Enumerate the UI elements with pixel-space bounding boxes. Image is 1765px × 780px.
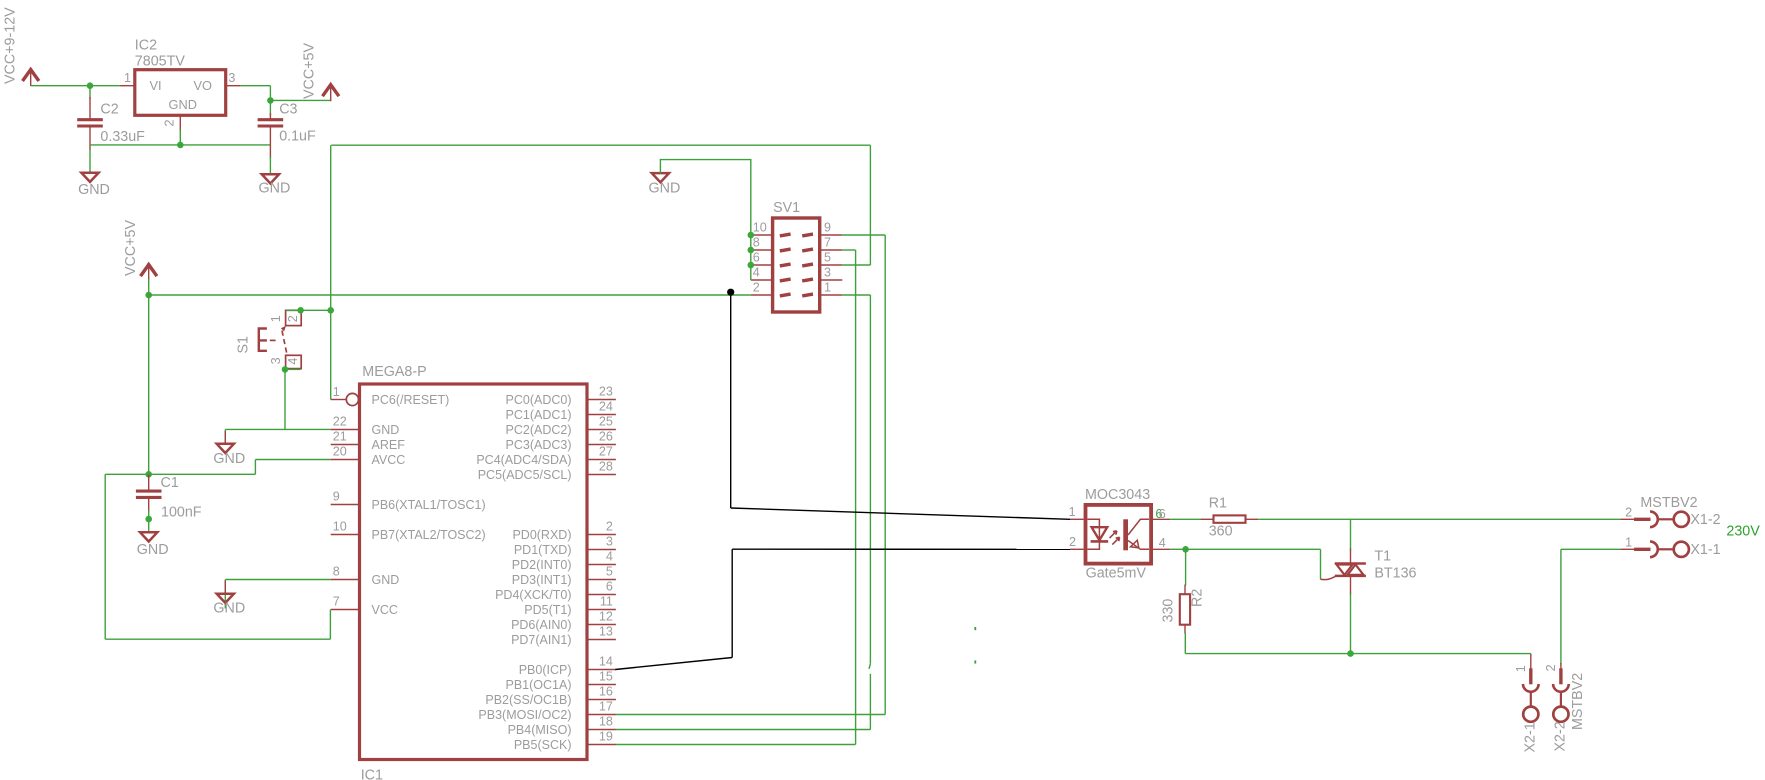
svg-text:X2-2: X2-2 — [1553, 721, 1569, 751]
ground stub red near AREF — [224, 431, 226, 444]
resistor R1 lead right — [1246, 518, 1259, 520]
wire RESET down to SV1 pin5 — [869, 145, 871, 265]
SV1 pin 7 stub — [820, 249, 843, 251]
svg-text:PC1(ADC1): PC1(ADC1) — [506, 408, 572, 422]
svg-text:7: 7 — [824, 236, 831, 250]
triac T1 MT2 lead — [1350, 549, 1352, 564]
svg-text:27: 27 — [599, 445, 613, 459]
svg-text:VCC: VCC — [372, 603, 398, 617]
svg-text:8: 8 — [753, 236, 760, 250]
svg-text:AVCC: AVCC — [372, 453, 406, 467]
IC2 pin 1 stub — [120, 85, 135, 87]
wire C3 top stub — [269, 100, 271, 115]
wire C3 junction to VCC+5V arrow — [270, 99, 330, 101]
svg-text:12: 12 — [599, 610, 613, 624]
junction node below C1 — [145, 516, 152, 523]
switch S1 actuator dash — [270, 339, 276, 341]
wire GND to SV1 riser — [660, 160, 750, 280]
junction node rail left — [145, 292, 152, 299]
ground symbol GND below C2 — [81, 173, 98, 182]
wire R2 to X2-1 bottom net — [1185, 653, 1531, 655]
svg-text:6: 6 — [606, 580, 613, 594]
switch S1 lever arrow — [281, 326, 286, 332]
MOC LED center lead — [1098, 527, 1100, 541]
wire RESET net vertical — [330, 145, 332, 399]
svg-text:5: 5 — [606, 565, 613, 579]
MOC gate arrowhead — [1131, 540, 1139, 548]
triac T1 MT1 lead — [1350, 576, 1352, 595]
svg-text:3: 3 — [269, 357, 283, 364]
capacitor C2 pin top — [89, 97, 91, 119]
wire VCC rail vertical to C1 — [148, 295, 150, 474]
IC1 pin 5 stub — [587, 579, 616, 581]
wire MOC pin6 to R1 — [1170, 518, 1201, 520]
svg-text:PB7(XTAL2/TOSC2): PB7(XTAL2/TOSC2) — [372, 528, 486, 542]
junction node C1 top — [145, 471, 152, 478]
IC1 pin 1 stub — [331, 399, 347, 401]
svg-text:GND: GND — [372, 573, 400, 587]
switch S1 actuator bracket — [259, 329, 267, 351]
svg-text:1: 1 — [1625, 535, 1632, 549]
SV1 pin 10 stub — [751, 234, 773, 236]
capacitor C3 — [258, 118, 284, 121]
junction node black net on VCC rail — [727, 289, 734, 296]
wire VCC input to IC2 pin 1 — [31, 85, 120, 87]
IC1 pin 9 stub — [331, 504, 360, 506]
triac T1 left triangle — [1337, 565, 1353, 575]
svg-text:PB0(ICP): PB0(ICP) — [519, 663, 572, 677]
wire SV1 pin9 net — [842, 234, 885, 236]
svg-text:MSTBV2: MSTBV2 — [1640, 495, 1697, 511]
IC1 pin 27 stub — [587, 459, 616, 461]
wire left loop up to VCC pin7 — [329, 610, 331, 640]
svg-text:PB1(OC1A): PB1(OC1A) — [506, 678, 572, 692]
svg-text:14: 14 — [599, 655, 613, 669]
ground symbol GND near AREF — [217, 444, 234, 453]
IC1 pin 8 stub — [331, 579, 360, 581]
ground symbol GND near pin8 — [217, 594, 234, 603]
triac T1 gate lead — [1321, 576, 1337, 580]
svg-text:13: 13 — [599, 625, 613, 639]
svg-text:VCC+9-12V: VCC+9-12V — [3, 7, 19, 84]
svg-text:GND: GND — [213, 451, 245, 467]
svg-text:PB4(MISO): PB4(MISO) — [508, 723, 572, 737]
IC1 pin 26 stub — [587, 444, 616, 446]
wire S1 top net — [286, 309, 331, 311]
svg-text:PD4(XCK/T0): PD4(XCK/T0) — [495, 588, 571, 602]
junction node SV1 pin8 — [748, 247, 755, 254]
svg-text:R1: R1 — [1209, 496, 1227, 512]
svg-text:PD2(INT0): PD2(INT0) — [512, 558, 572, 572]
junction node MOC pin4 — [1182, 546, 1189, 553]
svg-text:Gate5mV: Gate5mV — [1086, 565, 1147, 581]
svg-text:10: 10 — [753, 221, 767, 235]
svg-text:PC6(/RESET): PC6(/RESET) — [372, 393, 450, 407]
svg-text:230V: 230V — [1726, 523, 1760, 539]
wire black PB0 vertical — [731, 549, 733, 657]
svg-text:PD5(T1): PD5(T1) — [524, 603, 571, 617]
svg-text:2: 2 — [286, 315, 300, 322]
MOC LED cathode bar — [1091, 540, 1109, 543]
resistor R2 lead top — [1184, 585, 1186, 595]
wire SV1 pin1 vertical upper — [869, 295, 871, 664]
svg-text:BT136: BT136 — [1374, 565, 1416, 581]
wire black VCC to MOC pin1 vertical — [730, 292, 732, 508]
SV1 pin 1 stub — [820, 294, 843, 296]
wire T1 gate vertical — [1320, 549, 1322, 579]
svg-text:MOC3043: MOC3043 — [1085, 487, 1150, 503]
switch S1 lever dashed — [282, 331, 287, 355]
wire R1 to X1-2 — [1258, 518, 1620, 520]
wire IC1 pin8 GND net — [225, 579, 330, 581]
MOC LED triangle — [1092, 527, 1108, 540]
svg-text:360: 360 — [1209, 524, 1233, 540]
wire RESET net horizontal top — [331, 144, 870, 146]
svg-text:3: 3 — [228, 71, 235, 85]
ground symbol GND below C3 — [262, 174, 279, 183]
MOC pin6 inner lead — [1128, 519, 1149, 535]
svg-text:PB5(SCK): PB5(SCK) — [514, 738, 572, 752]
svg-text:2: 2 — [753, 281, 760, 295]
junction node SV1 pin10 — [748, 232, 755, 239]
SV1 pin 4 stub — [751, 279, 773, 281]
svg-text:PC4(ADC4/SDA): PC4(ADC4/SDA) — [476, 453, 571, 467]
SV1 contact bars row 8/7 — [780, 249, 813, 251]
svg-text:24: 24 — [599, 400, 613, 414]
svg-text:2: 2 — [1625, 505, 1632, 519]
wire left loop vertical — [104, 474, 106, 639]
IC1 pin 7 stub — [331, 609, 360, 611]
SV1 pin 3 stub — [820, 279, 843, 281]
svg-text:PD6(AIN0): PD6(AIN0) — [511, 618, 571, 632]
svg-text:330: 330 — [1161, 599, 1177, 623]
IC2 pin 2 stub — [179, 115, 181, 131]
junction node S1 branch — [327, 307, 334, 314]
svg-text:17: 17 — [599, 700, 613, 714]
microcontroller IC1 MEGA8-P box — [360, 384, 588, 760]
capacitor C1 pin bottom — [148, 498, 150, 512]
IC1 pin 4 stub — [587, 564, 616, 566]
ground stub red near pin8 — [224, 581, 226, 594]
svg-text:4: 4 — [753, 266, 760, 280]
capacitor C3 pin bottom — [269, 127, 271, 159]
wire VCC arrow stem to rail — [148, 279, 150, 295]
svg-text:5: 5 — [824, 251, 831, 265]
svg-text:1: 1 — [1069, 505, 1076, 519]
svg-text:4: 4 — [286, 358, 300, 365]
wire T1 MT1 down — [1350, 594, 1352, 654]
IC1 pin 14 stub — [587, 669, 616, 671]
wire SCK net pin19 — [616, 744, 856, 746]
switch S1 contact box top — [286, 310, 302, 325]
svg-text:PC0(ADC0): PC0(ADC0) — [506, 393, 572, 407]
junction node S1 pin3 — [282, 366, 289, 373]
IC1 pin 21 stub — [331, 444, 360, 446]
svg-text:16: 16 — [599, 685, 613, 699]
wire X2-1 pin lead — [1530, 654, 1532, 670]
MOC LED cathode lead — [1088, 541, 1100, 549]
wire C1 to GND — [148, 510, 150, 533]
capacitor C3 pin top — [269, 113, 271, 119]
svg-text:GND: GND — [213, 600, 245, 616]
wire MOC pin4 to R2 — [1170, 548, 1185, 550]
MOC light arrow upper — [1110, 531, 1117, 538]
wire left loop bottom — [105, 638, 330, 640]
wire R2 top — [1185, 549, 1187, 585]
SV1 contact bars row 6/5 — [780, 264, 813, 266]
supply symbol VCC+5V arrow (top) — [323, 85, 339, 97]
SV1 pin 9 stub — [820, 234, 843, 236]
svg-text:1: 1 — [269, 315, 283, 322]
svg-text:22: 22 — [333, 415, 347, 429]
resistor R2 lead bottom — [1184, 625, 1186, 634]
svg-text:GND: GND — [259, 181, 291, 197]
IC1 pin 20 stub — [331, 459, 360, 461]
svg-text:25: 25 — [599, 415, 613, 429]
triac T1 bottom rail — [1335, 575, 1366, 578]
supply symbol VCC+9-12V arrow — [23, 70, 39, 82]
svg-text:PC2(ADC2): PC2(ADC2) — [506, 423, 572, 437]
supply symbol VCC+5V arrow (rail) — [141, 265, 157, 277]
svg-text:7: 7 — [333, 595, 340, 609]
IC1 pin 23 stub — [587, 399, 616, 401]
svg-text:20: 20 — [333, 445, 347, 459]
connector X1-1 contact — [1620, 548, 1634, 550]
svg-text:PB6(XTAL1/TOSC1): PB6(XTAL1/TOSC1) — [372, 498, 486, 512]
resistor R1 lead left — [1201, 518, 1214, 520]
wire GND stub near AREF — [224, 429, 226, 444]
wire jog nub — [869, 664, 870, 669]
wire SV1 pin1 vertical lower — [869, 674, 871, 730]
connector X2-2 contact — [1559, 668, 1562, 684]
ground symbol GND above SV1 — [652, 173, 669, 182]
svg-text:VCC+5V: VCC+5V — [302, 43, 318, 99]
wire GND net C2-C3 — [90, 144, 270, 146]
junction node at C3 top — [267, 97, 274, 104]
wire black PB0 from pin14 — [615, 658, 732, 670]
svg-text:SV1: SV1 — [773, 200, 800, 216]
svg-text:MSTBV2: MSTBV2 — [1570, 673, 1586, 730]
junction node at C2 top — [87, 82, 94, 89]
wire AVCC net horizontal — [255, 459, 330, 461]
IC1 pin 6 stub — [587, 594, 616, 596]
wire IC2 pin2 to GND net — [179, 130, 181, 145]
connector X2-2 pin lead — [1560, 663, 1562, 670]
resistor R1 — [1214, 515, 1246, 522]
junction node S1 pin2 — [297, 307, 304, 314]
IC1 pin 19 stub — [587, 744, 616, 746]
wire SV1 pin1 net — [842, 294, 870, 296]
stray net speck lower — [974, 660, 976, 663]
wire C3 to GND — [269, 156, 271, 175]
svg-text:11: 11 — [600, 595, 613, 609]
capacitor C1 pin top — [148, 474, 150, 490]
svg-text:GND: GND — [169, 97, 197, 112]
SV1 pin 8 stub — [751, 249, 773, 251]
wire corner down to C3 junction — [269, 86, 271, 101]
IC1 pin 28 stub — [587, 474, 616, 476]
svg-text:18: 18 — [599, 715, 613, 729]
wire S1 to GND net — [284, 369, 286, 429]
wire SV1 pin7 vertical — [855, 250, 857, 745]
IC1 pin 17 stub — [587, 714, 616, 716]
svg-text:S1: S1 — [236, 336, 252, 354]
svg-text:T1: T1 — [1374, 549, 1391, 565]
wire C2 to GND — [89, 149, 91, 173]
wire SV1 pin5 net — [842, 264, 870, 266]
IC1 pin 24 stub — [587, 414, 616, 416]
MOC phototriac bar — [1123, 519, 1128, 550]
svg-text:15: 15 — [599, 670, 613, 684]
svg-text:1: 1 — [124, 71, 131, 85]
svg-text:4: 4 — [1159, 536, 1166, 550]
svg-text:8: 8 — [333, 565, 340, 579]
svg-text:3: 3 — [824, 266, 831, 280]
IC1 pin 16 stub — [587, 699, 616, 701]
wire gate net horizontal — [1186, 548, 1321, 550]
wire GND overshoot below pin8 — [224, 580, 226, 609]
ground symbol GND below C1 — [140, 532, 157, 541]
svg-text:9: 9 — [824, 221, 831, 235]
svg-text:1: 1 — [333, 385, 340, 399]
svg-text:1: 1 — [824, 281, 831, 295]
wire SV1 pin7 net — [842, 249, 855, 251]
SV1 pin 2 stub — [751, 294, 773, 296]
capacitor C1 — [136, 490, 162, 493]
switch S1 contact box bottom — [286, 355, 302, 368]
svg-text:PB3(MOSI/OC2): PB3(MOSI/OC2) — [478, 708, 571, 722]
wire S1 bottom net — [285, 368, 301, 370]
svg-text:6: 6 — [753, 251, 760, 265]
IC1 pin 12 stub — [587, 624, 616, 626]
wire IC2 pin3 to C3 — [241, 85, 271, 87]
svg-text:6: 6 — [1159, 507, 1166, 521]
svg-text:X2-1: X2-1 — [1523, 722, 1539, 752]
resistor R2 — [1180, 594, 1190, 625]
wire VCC+5V rail — [149, 294, 751, 296]
SV1 pin 6 stub — [751, 264, 773, 266]
svg-text:R2: R2 — [1190, 589, 1206, 607]
triac T1 top rail — [1335, 562, 1366, 565]
svg-text:PD0(RXD): PD0(RXD) — [512, 528, 571, 542]
wire MOSI net pin17 — [616, 714, 886, 716]
MOC pin4 inner lead — [1128, 541, 1149, 550]
wire AVCC jog horizontal to C1 — [105, 473, 255, 475]
connector X2-1 contact — [1529, 668, 1532, 684]
IC1 pin 13 stub — [587, 639, 616, 641]
wire black slant to MOC pin1 — [731, 508, 1070, 519]
capacitor C2 pin bottom — [89, 127, 91, 151]
svg-text:PB2(SS/OC1B): PB2(SS/OC1B) — [485, 693, 571, 707]
wire SV1 pin9 vertical — [884, 235, 886, 715]
svg-text:X1-2: X1-2 — [1690, 512, 1720, 528]
svg-text:7805TV: 7805TV — [135, 53, 186, 69]
IC2 pin 3 stub — [226, 85, 241, 87]
svg-text:VO: VO — [194, 78, 213, 93]
MOC pin 2 stub — [1070, 548, 1084, 550]
svg-text:2: 2 — [1069, 535, 1076, 549]
IC1 pin 22 stub — [331, 429, 360, 431]
wire X1-1 net down to X2-2 — [1560, 549, 1562, 664]
wire IC1 pin22 GND net — [225, 428, 330, 430]
SV1 contact bars row 4/3 — [780, 279, 813, 281]
wire black PB0 to MOC pin2 — [732, 548, 1070, 550]
SV1 contact bars row 2/1 — [780, 294, 813, 296]
svg-text:X1-1: X1-1 — [1690, 542, 1720, 558]
wire MISO net pin18 — [616, 729, 871, 731]
svg-text:C2: C2 — [100, 102, 118, 118]
MOC pin 4 stub — [1153, 548, 1170, 550]
stray net speck upper — [974, 627, 976, 630]
IC1 pin 10 stub — [331, 534, 360, 536]
svg-text:PD7(AIN1): PD7(AIN1) — [511, 633, 571, 647]
wire C2 top stub — [89, 86, 91, 99]
MOC pin 6 stub — [1153, 518, 1170, 520]
svg-text:PC3(ADC3): PC3(ADC3) — [506, 438, 572, 452]
IC1 pin 3 stub — [587, 549, 616, 551]
svg-text:PD3(INT1): PD3(INT1) — [512, 573, 572, 587]
svg-text:2: 2 — [163, 120, 177, 127]
IC1 pin 2 stub — [587, 534, 616, 536]
svg-text:10: 10 — [333, 520, 347, 534]
junction node IC2 pin2 / GND net — [177, 142, 184, 149]
svg-text:19: 19 — [599, 730, 613, 744]
IC1 pin 18 stub — [587, 729, 616, 731]
optocoupler U2 MOC3043 box — [1086, 505, 1152, 564]
triac T1 right triangle — [1348, 565, 1364, 575]
wire T1 MT2 from R1 net — [1350, 519, 1352, 549]
MOC pin 1 stub — [1070, 518, 1084, 520]
SV1 pin 5 stub — [820, 264, 843, 266]
wire X1-1 to X2-2 horizontal — [1561, 548, 1620, 550]
junction node SV1 pin6 — [748, 262, 755, 269]
MOC LED anode lead — [1088, 519, 1100, 527]
svg-text:1: 1 — [1514, 665, 1528, 672]
svg-text:C1: C1 — [161, 475, 179, 491]
MOC light arrow lower — [1112, 537, 1119, 544]
svg-text:IC1: IC1 — [361, 768, 383, 780]
svg-text:VI: VI — [150, 78, 162, 93]
svg-text:0.1uF: 0.1uF — [279, 129, 316, 145]
svg-text:VCC+5V: VCC+5V — [123, 220, 139, 276]
svg-text:9: 9 — [333, 490, 340, 504]
svg-text:C3: C3 — [279, 102, 297, 118]
svg-text:2: 2 — [606, 520, 613, 534]
junction node T1 MT1 / bottom net — [1347, 650, 1354, 657]
IC1 pin 25 stub — [587, 429, 616, 431]
svg-text:26: 26 — [599, 430, 613, 444]
svg-text:21: 21 — [333, 430, 347, 444]
svg-text:AREF: AREF — [372, 438, 406, 452]
connector SV1 box — [773, 218, 820, 312]
svg-text:PC5(ADC5/SCL): PC5(ADC5/SCL) — [478, 468, 572, 482]
svg-text:2: 2 — [1544, 664, 1558, 671]
svg-text:3: 3 — [606, 535, 613, 549]
svg-text:IC2: IC2 — [135, 37, 157, 53]
svg-text:MEGA8-P: MEGA8-P — [362, 364, 426, 380]
svg-text:GND: GND — [137, 542, 169, 558]
SV1 contact bars row 10/9 — [780, 234, 813, 236]
svg-text:4: 4 — [606, 550, 613, 564]
IC1 pin 11 stub — [587, 609, 616, 611]
IC1 pin 1 inversion circle — [346, 393, 358, 405]
capacitor C2 — [77, 118, 103, 121]
svg-text:GND: GND — [372, 423, 400, 437]
svg-text:PD1(TXD): PD1(TXD) — [514, 543, 572, 557]
svg-text:GND: GND — [78, 182, 110, 198]
svg-text:23: 23 — [599, 385, 613, 399]
svg-text:GND: GND — [649, 180, 681, 196]
